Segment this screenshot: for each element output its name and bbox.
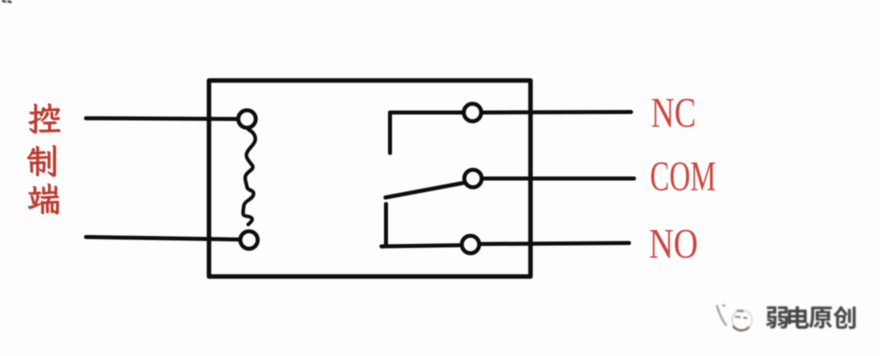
NO fixed contact bracket [382,204,460,246]
coil terminal pin 1 (top-left) [238,110,255,127]
NC terminal pin [464,104,481,121]
wire: NO output [481,243,629,244]
wire: COM output [484,177,635,181]
NO bracket corner junction [381,245,384,248]
coil L1 winding [243,130,255,225]
wire: control input bottom [86,237,239,240]
watermark text char 弱 [766,306,788,328]
label 控 (control terminal text, char 1) [29,104,61,134]
coil terminal pin 2 (bottom-left) [240,231,257,248]
wire: NC output [483,110,631,115]
COM terminal pin [464,170,481,187]
watermark text char 创 [833,306,855,329]
scan speck (corner mark) [3,1,11,2]
NO terminal pin [462,236,479,253]
label 制 (char 2) [27,145,55,176]
svg-text:NO: NO [649,222,698,268]
relay box U1 (outline) [209,81,531,277]
svg-text:NC: NC [651,91,696,137]
wire: control input top [86,116,237,121]
watermark text char 原 [809,307,832,329]
watermark logo (cat face) [717,305,752,330]
svg-text:COM: COM [650,155,716,201]
NC fixed contact bracket [390,113,462,154]
watermark text char 电 [788,306,809,329]
COM switch arm (movable contact) [386,183,464,198]
label 端 (char 3) [28,184,58,214]
